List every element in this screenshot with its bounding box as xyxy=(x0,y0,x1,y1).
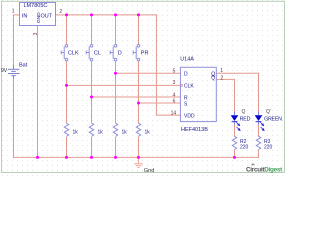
svg-text:IN: IN xyxy=(22,14,28,20)
svg-text:RED: RED xyxy=(240,117,251,123)
svg-text:1k: 1k xyxy=(145,130,151,136)
svg-text:5: 5 xyxy=(173,68,176,74)
svg-text:2: 2 xyxy=(59,9,62,15)
svg-text:3: 3 xyxy=(173,80,176,86)
svg-text:4: 4 xyxy=(173,92,176,98)
svg-text:D: D xyxy=(184,72,188,78)
svg-text:CircuitDigest: CircuitDigest xyxy=(246,166,283,173)
svg-text:3: 3 xyxy=(33,32,39,35)
svg-text:Q: Q xyxy=(211,76,215,82)
svg-text:VDD: VDD xyxy=(184,113,195,119)
svg-text:Gnd: Gnd xyxy=(144,168,154,174)
svg-text:220: 220 xyxy=(264,145,273,151)
svg-text:LM7805C: LM7805C xyxy=(24,3,48,9)
svg-text:1k: 1k xyxy=(73,130,79,136)
svg-text:1k: 1k xyxy=(98,130,104,136)
svg-text:1k: 1k xyxy=(122,130,128,136)
svg-text:2: 2 xyxy=(221,75,224,81)
svg-text:220: 220 xyxy=(240,145,249,151)
svg-text:14: 14 xyxy=(171,111,177,117)
svg-text:Q': Q' xyxy=(266,109,271,115)
svg-text:CL: CL xyxy=(94,51,101,57)
svg-text:CLK: CLK xyxy=(68,51,79,57)
svg-text:U14A: U14A xyxy=(180,57,194,63)
svg-text:Bat: Bat xyxy=(19,63,28,69)
svg-text:1: 1 xyxy=(12,9,15,15)
svg-text:Q: Q xyxy=(242,109,246,115)
svg-text:9V: 9V xyxy=(1,68,8,74)
svg-text:PR: PR xyxy=(141,51,149,57)
svg-text:1: 1 xyxy=(220,68,223,74)
svg-text:OUT: OUT xyxy=(41,14,53,20)
svg-text:HEF4013B: HEF4013B xyxy=(181,127,208,133)
svg-text:GND: GND xyxy=(36,12,42,23)
svg-text:CLK: CLK xyxy=(184,84,194,90)
svg-text:GREEN: GREEN xyxy=(264,117,282,123)
svg-text:6: 6 xyxy=(173,99,176,105)
svg-text:D: D xyxy=(118,51,122,57)
